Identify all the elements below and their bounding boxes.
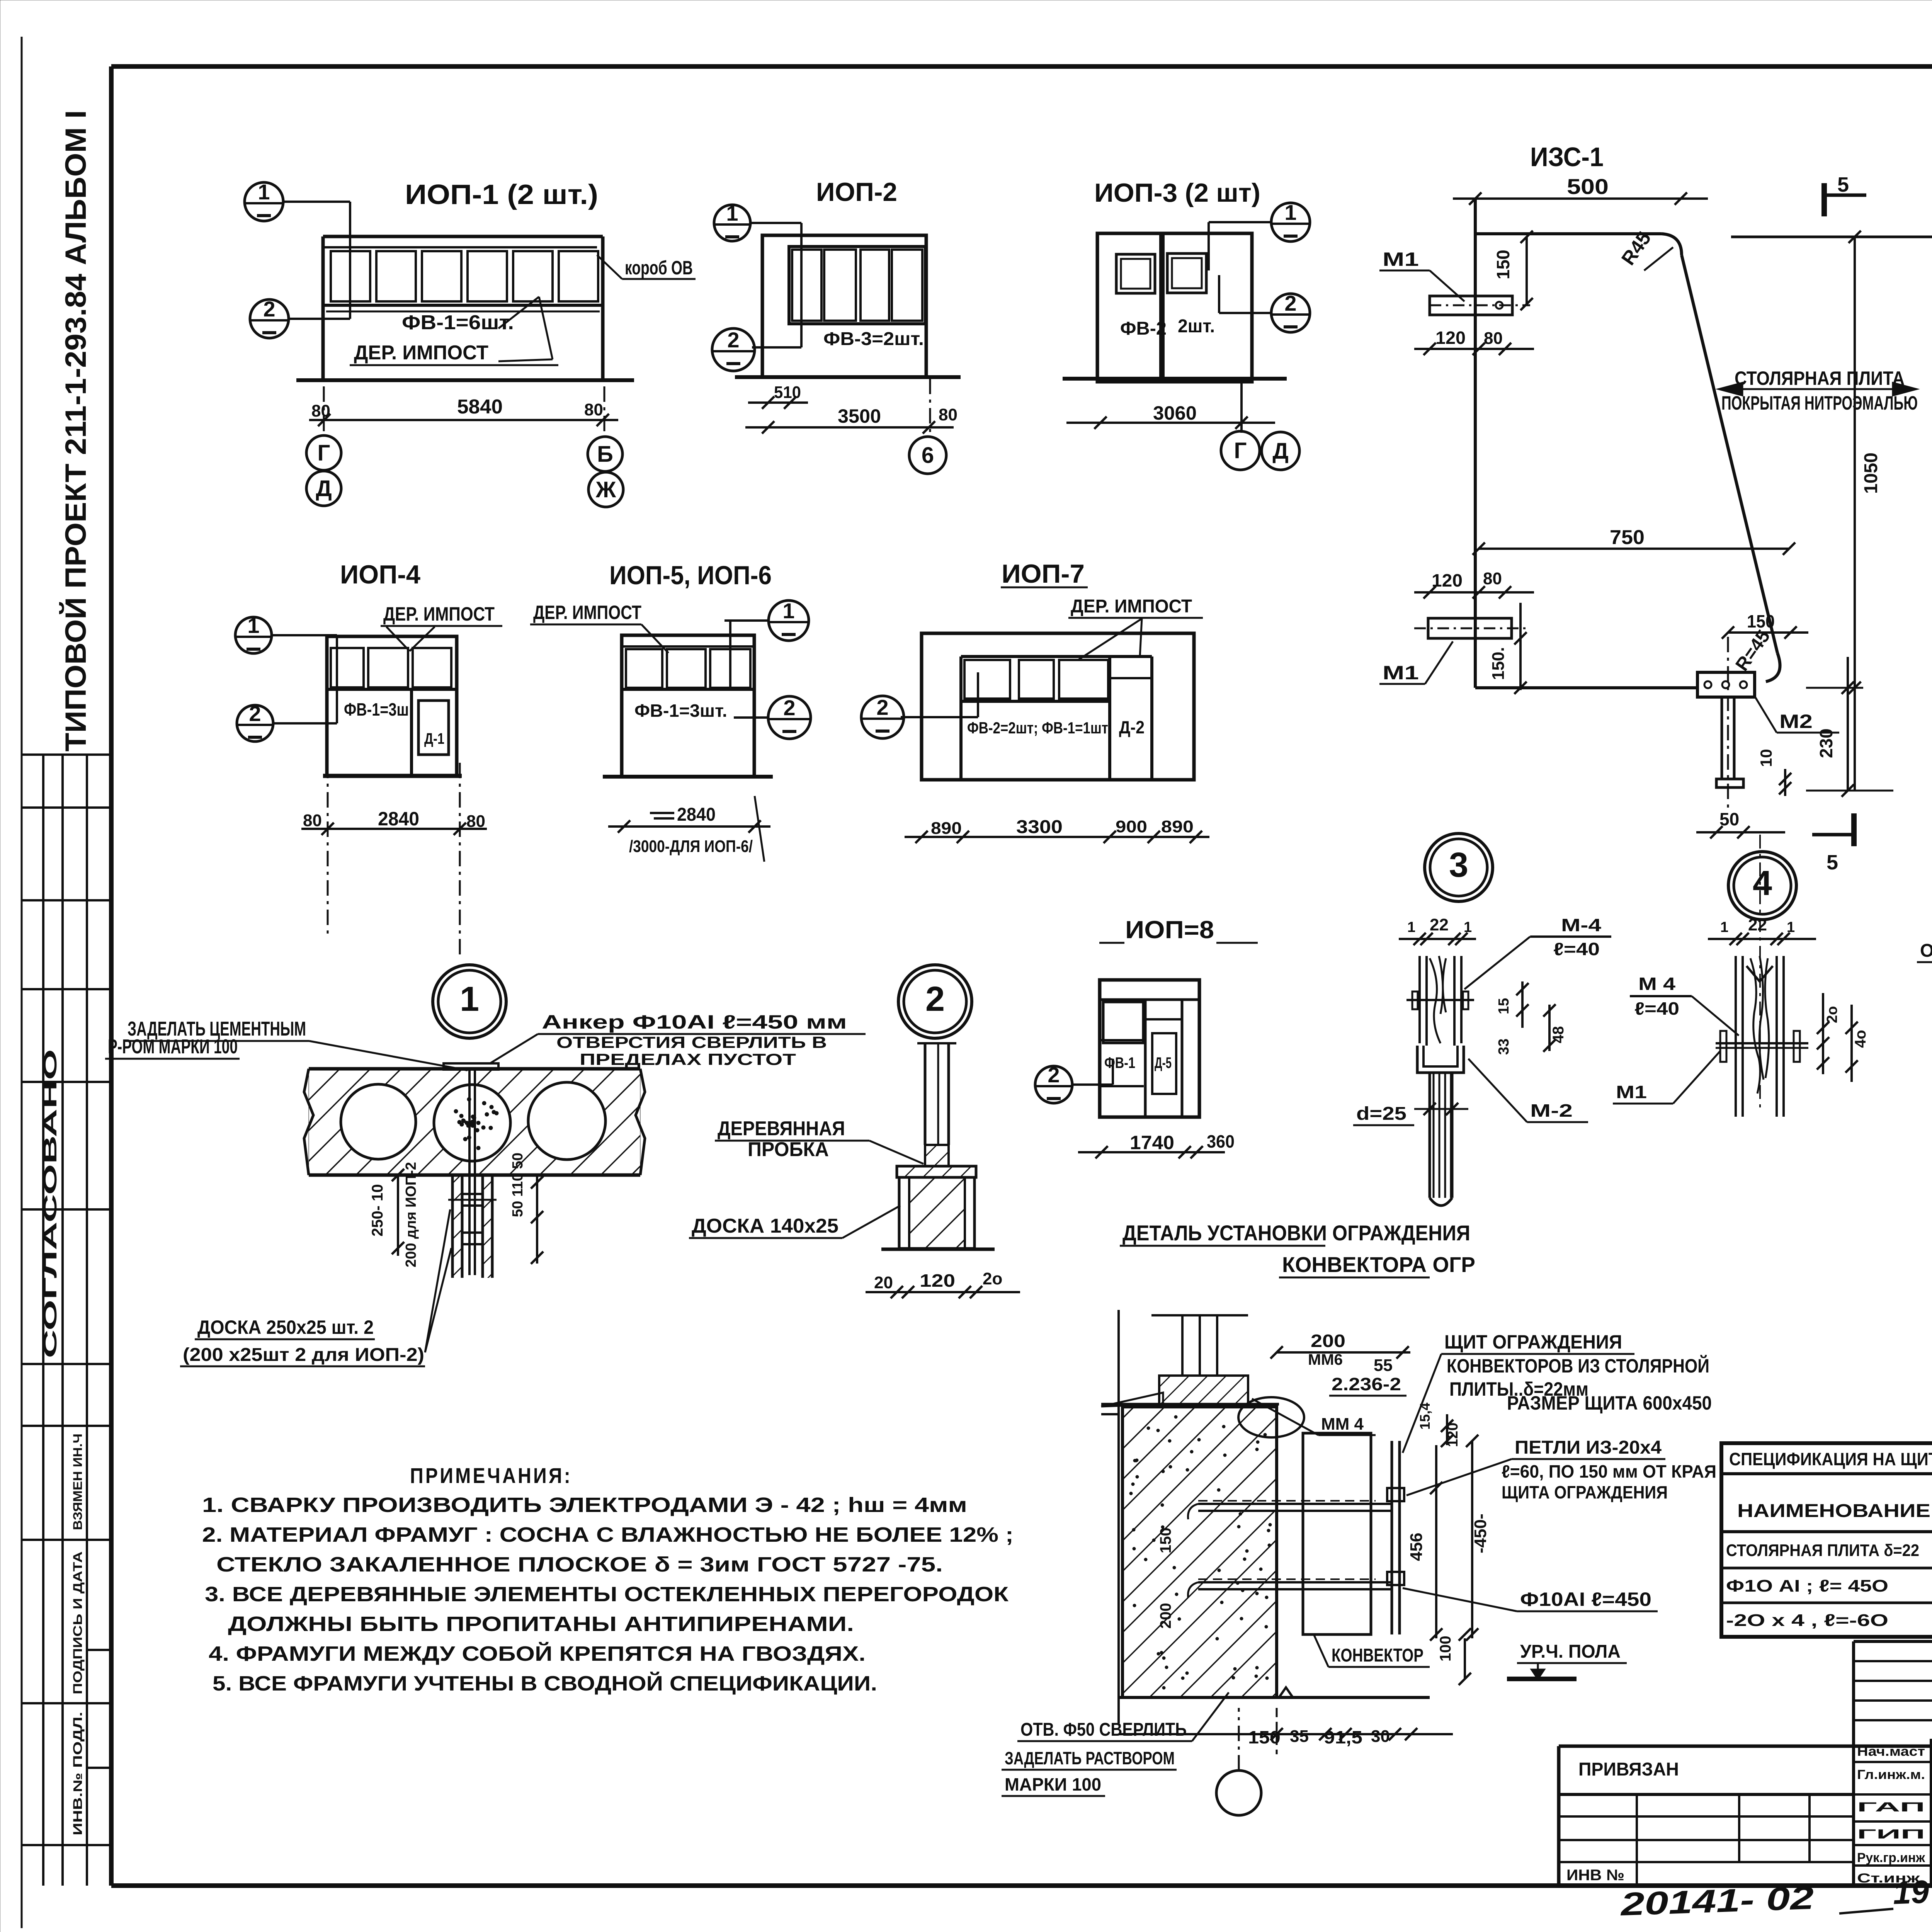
svg-text:Г: Г: [1234, 438, 1247, 463]
svg-text:ЩИТ ОГРАЖДЕНИЯ: ЩИТ ОГРАЖДЕНИЯ: [1444, 1331, 1622, 1353]
svg-text:10: 10: [1757, 749, 1775, 767]
dim 150 right of lower M1: [1519, 603, 1522, 690]
svg-text:ℓ=40: ℓ=40: [1634, 998, 1679, 1019]
dowel d=25: [1429, 1073, 1431, 1198]
dim 1740 360 ИОП-8: [1078, 1151, 1225, 1153]
svg-text:50 110 50: 50 110 50: [510, 1153, 526, 1217]
callout circle 2 ИОП-2: [712, 328, 755, 371]
dim 10 M2 base: [1784, 769, 1786, 796]
svg-text:1: 1: [1720, 919, 1728, 935]
dim 80 5840 80 ИОП-1: [309, 419, 618, 421]
svg-text:2. МАТЕРИАЛ ФРАМУГ : СОСНА: 2. МАТЕРИАЛ ФРАМУГ : СОСНА С ВЛАЖНОСТЬЮ …: [202, 1523, 1014, 1546]
svg-text:Д-1: Д-1: [424, 730, 444, 747]
ИОП-3 windows ФВ-2: [1116, 254, 1155, 293]
svg-text:Рук.гр.инж: Рук.гр.инж: [1857, 1850, 1925, 1865]
svg-text:80: 80: [939, 405, 957, 424]
svg-text:80: 80: [1483, 569, 1502, 588]
bottom dim 150 35 91,5 30: [1119, 1733, 1453, 1735]
bracket M2 plate: [1697, 672, 1755, 697]
svg-text:МАРКИ 100: МАРКИ 100: [1005, 1774, 1101, 1794]
svg-text:48: 48: [1550, 1026, 1567, 1044]
svg-text:КОНВЕКТОРОВ ИЗ СТОЛЯРНОЙ: КОНВЕКТОРОВ ИЗ СТОЛЯРНОЙ: [1447, 1355, 1709, 1377]
svg-text:1: 1: [1787, 919, 1795, 935]
svg-text:3. ВСЕ ДЕРЕВЯННЫЕ ЭЛЕМЕНТЫ: 3. ВСЕ ДЕРЕВЯННЫЕ ЭЛЕМЕНТЫ ОСТЕКЛЕННЫХ П…: [205, 1583, 1009, 1606]
dim 3500 80 ИОП-2: [745, 426, 954, 429]
svg-text:ДОСКА 250х25 шт. 2: ДОСКА 250х25 шт. 2: [197, 1316, 374, 1338]
axis dashdot lines: [323, 386, 325, 435]
svg-text:ЩИТА ОГРАЖДЕНИЯ: ЩИТА ОГРАЖДЕНИЯ: [1502, 1482, 1668, 1502]
svg-text:150: 150: [1493, 250, 1513, 279]
top line to 5-5: [1731, 236, 1932, 238]
section 5 flag bottom: [1851, 813, 1857, 846]
svg-text:1: 1: [258, 180, 270, 204]
svg-text:М1: М1: [1616, 1082, 1647, 1102]
svg-text:20: 20: [874, 1273, 893, 1292]
svg-text:Ф10АІ ℓ=450: Ф10АІ ℓ=450: [1520, 1588, 1651, 1610]
svg-text:ПРЕДЕЛАХ ПУСТОТ: ПРЕДЕЛАХ ПУСТОТ: [580, 1050, 796, 1068]
svg-text:3: 3: [1449, 846, 1468, 884]
svg-text:2: 2: [263, 297, 275, 321]
bracket M1 lower: [1428, 618, 1512, 638]
svg-text:80: 80: [1484, 329, 1503, 348]
left margin stamp column: [42, 755, 44, 1886]
svg-text:30: 30: [1371, 1727, 1390, 1746]
axis circle Г: [306, 435, 341, 470]
svg-text:/3000-ДЛЯ ИОП-6/: /3000-ДЛЯ ИОП-6/: [629, 837, 753, 856]
screen diagonal edge: [1682, 255, 1777, 653]
svg-text:СПЕЦИФИКАЦИЯ НА ЩИТЫ ОГРАЖДЕНИ: СПЕЦИФИКАЦИЯ НА ЩИТЫ ОГРАЖДЕНИЯ КОНВЕКТО…: [1729, 1449, 1932, 1469]
svg-text:ОТВ. Ф50 СВЕРЛИТЬ: ОТВ. Ф50 СВЕРЛИТЬ: [1020, 1719, 1187, 1740]
svg-text:-2О х 4 , ℓ=-6О: -2О х 4 , ℓ=-6О: [1726, 1611, 1888, 1630]
svg-text:ММ 4: ММ 4: [1321, 1415, 1364, 1434]
detail 3 dim 1 22 1: [1399, 938, 1476, 940]
dim 750: [1479, 548, 1789, 550]
svg-text:120: 120: [1435, 328, 1466, 348]
svg-text:5: 5: [1827, 851, 1838, 874]
svg-text:Б: Б: [597, 442, 613, 467]
svg-text:890: 890: [931, 819, 962, 838]
svg-text:ДЕР. ИМПОСТ: ДЕР. ИМПОСТ: [383, 603, 495, 625]
svg-text:М1: М1: [1383, 662, 1419, 684]
svg-text:4о: 4о: [1852, 1030, 1869, 1048]
svg-text:ОТВЕРСТИЯ СВЕРЛИТЬ В: ОТВЕРСТИЯ СВЕРЛИТЬ В: [556, 1033, 827, 1051]
svg-text:ℓ=60, ПО 150 мм ОТ КРАЯ: ℓ=60, ПО 150 мм ОТ КРАЯ: [1502, 1461, 1716, 1481]
svg-text:1050: 1050: [1861, 452, 1881, 494]
svg-text:Д: Д: [1272, 439, 1288, 464]
svg-text:2: 2: [249, 701, 261, 726]
M2 column: [1721, 697, 1723, 779]
dim 230: [1847, 657, 1849, 791]
svg-text:2: 2: [727, 328, 739, 352]
svg-text:120: 120: [1432, 570, 1463, 590]
panel ИОП-3 outline: [1097, 233, 1252, 382]
svg-text:3060: 3060: [1153, 402, 1197, 424]
ground line ИОП-2: [735, 375, 961, 379]
guard panel: [1391, 1441, 1393, 1634]
svg-text:короб ОВ: короб ОВ: [625, 257, 693, 279]
svg-text:СТЕКЛО ЗАКАЛЕННОЕ ПЛОСКОЕ: СТЕКЛО ЗАКАЛЕННОЕ ПЛОСКОЕ δ = 3им ГОСТ 5…: [216, 1553, 943, 1576]
screen left edge: [1474, 199, 1477, 688]
detail 4 circle: [1728, 852, 1796, 920]
svg-text:22: 22: [1430, 915, 1449, 934]
ИОП-2 window band ФВ-3 x4: [789, 247, 925, 324]
screen bottom edge: [1475, 686, 1697, 689]
svg-text:230: 230: [1816, 728, 1836, 758]
ground ИОП-5: [603, 775, 773, 779]
svg-text:200: 200: [1157, 1603, 1174, 1629]
svg-text:6: 6: [922, 443, 934, 468]
svg-text:ДЕР. ИМПОСТ: ДЕР. ИМПОСТ: [1071, 596, 1192, 617]
svg-text:ℓ=40: ℓ=40: [1553, 939, 1600, 959]
panel ИОП-2 outline: [762, 235, 926, 377]
svg-text:Г: Г: [318, 440, 330, 466]
ИОП-8 window: [1103, 1002, 1143, 1043]
svg-text:М1: М1: [1383, 248, 1419, 270]
axis circle Г: [1221, 431, 1260, 470]
svg-text:3500: 3500: [838, 405, 881, 427]
stud above plug: [924, 1043, 927, 1145]
svg-text:500: 500: [1567, 174, 1609, 199]
svg-text:2840: 2840: [378, 808, 419, 830]
привязан grid: [1559, 1815, 1854, 1818]
wood grain: [1430, 956, 1446, 1043]
axis circle 6: [909, 437, 946, 474]
callout 1 ИОП-5: [769, 600, 809, 641]
callout circle 2 ИОП-1: [250, 299, 289, 338]
panel ИОП-1 outline: [323, 235, 603, 238]
svg-text:1: 1: [1407, 919, 1415, 935]
wall hatched: [1122, 1407, 1277, 1697]
vertical dims left of boards: [397, 1175, 399, 1256]
svg-text:ФВ-2: ФВ-2: [1120, 318, 1167, 339]
slab outline: [309, 1067, 640, 1071]
svg-text:80: 80: [584, 400, 603, 419]
vertical dims right: [536, 1175, 538, 1264]
svg-text:ИОП=8: ИОП=8: [1125, 916, 1214, 944]
signature row Рук.гр.инж: [1854, 1844, 1932, 1846]
svg-text:М-2: М-2: [1530, 1100, 1573, 1121]
svg-text:ММ6: ММ6: [1308, 1351, 1343, 1368]
svg-text:80: 80: [311, 401, 330, 420]
callout 2 ИОП-4: [237, 705, 273, 742]
svg-text:91,5: 91,5: [1324, 1727, 1362, 1747]
axis circle Д: [306, 471, 341, 506]
svg-text:ИЗС-1: ИЗС-1: [1530, 142, 1604, 172]
svg-text:ЗАДЕЛАТЬ РАСТВОРОМ: ЗАДЕЛАТЬ РАСТВОРОМ: [1005, 1748, 1175, 1768]
svg-text:Д-2: Д-2: [1119, 717, 1145, 737]
svg-text:М 4: М 4: [1638, 974, 1676, 994]
svg-text:200 для ИОП-2: 200 для ИОП-2: [403, 1162, 419, 1267]
name rows: [1852, 1739, 1855, 1886]
svg-text:120: 120: [920, 1270, 955, 1291]
ИОП-5 panes: [626, 649, 662, 688]
svg-text:1: 1: [726, 201, 738, 225]
slab cores: [341, 1084, 416, 1159]
svg-text:150: 150: [1248, 1727, 1281, 1747]
ground line under ИОП-1: [296, 378, 634, 382]
svg-text:750: 750: [1610, 526, 1645, 549]
svg-text:ИНВ.№ ПОДЛ.: ИНВ.№ ПОДЛ.: [71, 1712, 85, 1835]
plug cross hatch: [909, 1177, 965, 1248]
svg-text:890: 890: [1161, 817, 1194, 836]
M-2 channel wrap: [1417, 1046, 1464, 1073]
svg-text:15,4: 15,4: [1417, 1403, 1433, 1430]
table спецификация на щиты ограждения конвекторов: [1721, 1443, 1932, 1637]
callout circle 1 ИОП-3: [1271, 203, 1310, 241]
vertical dims 120 456 450 100: [1446, 1414, 1448, 1445]
svg-text:2.236-2: 2.236-2: [1332, 1374, 1401, 1394]
svg-text:80: 80: [303, 811, 322, 830]
svg-text:1: 1: [460, 980, 479, 1019]
node circle 2: [898, 965, 972, 1038]
dim 510 ИОП-2: [748, 401, 808, 404]
svg-text:ФВ-1: ФВ-1: [1104, 1054, 1135, 1071]
sheet outer edge line left: [21, 37, 23, 1928]
привязан box: [1559, 1745, 1932, 1748]
svg-text:2: 2: [1048, 1063, 1060, 1087]
plug body: [899, 1177, 975, 1248]
signature row Ст.инж.: [1854, 1864, 1932, 1867]
center mullion: [1159, 233, 1165, 379]
svg-text:510: 510: [774, 383, 801, 402]
callout 2 ИОП-8: [1035, 1066, 1072, 1103]
svg-text:1: 1: [1464, 919, 1472, 935]
dim 120 80 under M1: [1414, 348, 1534, 350]
ground ИОП-4: [323, 774, 462, 778]
callout 2 ИОП-7: [861, 696, 904, 738]
panel ИОП-4 outline: [327, 636, 457, 776]
svg-text:250- 10: 250- 10: [369, 1184, 386, 1236]
signature row ГАП: [1854, 1793, 1932, 1796]
convector box: [1303, 1433, 1371, 1634]
svg-text:(200 х25шт 2 для ИОП-2): (200 х25шт 2 для ИОП-2): [183, 1345, 424, 1365]
svg-text:СОГЛАСОВАНО: СОГЛАСОВАНО: [40, 1049, 61, 1358]
ground under plug: [881, 1248, 995, 1251]
ИОП-4 panes: [331, 648, 364, 687]
svg-text:5. ВСЕ ФРАМУГИ УЧТЕНЫ В СВО: 5. ВСЕ ФРАМУГИ УЧТЕНЫ В СВОДНОЙ СПЕЦИФИК…: [213, 1672, 877, 1695]
svg-text:ФВ-1=3ш: ФВ-1=3ш: [344, 699, 409, 719]
sill line: [1101, 1403, 1279, 1406]
dims 15 48 33: [1521, 981, 1524, 1028]
svg-text:ДОЛЖНЫ БЫТЬ ПРОПИТАНЫ АНТИП: ДОЛЖНЫ БЫТЬ ПРОПИТАНЫ АНТИПИРЕНАМИ.: [228, 1612, 854, 1636]
svg-text:ГАП: ГАП: [1857, 1800, 1925, 1815]
axis circle Б: [588, 437, 622, 471]
M2 base plate: [1716, 779, 1743, 787]
svg-text:5: 5: [1837, 173, 1849, 196]
svg-text:33: 33: [1496, 1039, 1512, 1055]
svg-text:ИНВ №: ИНВ №: [1566, 1867, 1624, 1884]
svg-text:ИОП-4: ИОП-4: [340, 560, 420, 589]
bottom circle callout: [1216, 1770, 1261, 1815]
leader triangle: [498, 297, 539, 328]
svg-text:1740: 1740: [1130, 1132, 1174, 1153]
revision grid: [1854, 1640, 1932, 1643]
ИОП-8 ФВ-1 cell: [1144, 1000, 1147, 1117]
svg-text:5840: 5840: [457, 396, 503, 418]
dim 890 3300 900 890 ИОП-7: [905, 836, 1209, 838]
svg-text:55: 55: [1374, 1356, 1393, 1375]
svg-text:Ж: Ж: [595, 477, 616, 502]
svg-text:СТОЛЯРНАЯ ПЛИТА: СТОЛЯРНАЯ ПЛИТА: [1735, 367, 1905, 389]
ИОП-7 window band: [961, 655, 1152, 658]
R45 top corner: [1662, 234, 1682, 255]
svg-text:ИОП-7: ИОП-7: [1002, 559, 1085, 588]
svg-text:Анкер Ф10АІ ℓ=450 мм: Анкер Ф10АІ ℓ=450 мм: [542, 1011, 847, 1033]
ИОП-8 door Д-5: [1181, 1000, 1184, 1117]
svg-text:2о: 2о: [983, 1269, 1002, 1288]
svg-text:Ф1О АІ ; ℓ= 45О: Ф1О АІ ; ℓ= 45О: [1726, 1577, 1888, 1595]
svg-text:2шт.: 2шт.: [1178, 316, 1215, 337]
svg-text:ВЗЯМЕН ИН.Ч: ВЗЯМЕН ИН.Ч: [71, 1434, 85, 1530]
callout 1 ИОП-4: [235, 617, 272, 653]
dim 200 top: [1277, 1351, 1410, 1354]
svg-text:ПРОБКА: ПРОБКА: [748, 1138, 829, 1161]
svg-text:РАЗМЕР ЩИТА 600х450: РАЗМЕР ЩИТА 600х450: [1507, 1392, 1712, 1414]
svg-text:ТИПОВОЙ ПРОЕКТ 211-1-293.84: ТИПОВОЙ ПРОЕКТ 211-1-293.84 АЛЬБОМ I: [59, 110, 92, 752]
dim 1050 vertical: [1854, 237, 1856, 791]
svg-text:ДЕР. ИМПОСТ: ДЕР. ИМПОСТ: [533, 602, 641, 623]
svg-text:d=25: d=25: [1356, 1104, 1406, 1124]
svg-text:М-4: М-4: [1561, 915, 1602, 935]
svg-text:КОНВЕКТОРА ОГР: КОНВЕКТОРА ОГР: [1282, 1252, 1475, 1277]
svg-text:200: 200: [1311, 1331, 1345, 1351]
svg-text:3300: 3300: [1016, 817, 1063, 837]
floor line: [1119, 1696, 1430, 1699]
svg-text:ДОСКА 140х25: ДОСКА 140х25: [692, 1215, 838, 1237]
svg-text:35: 35: [1290, 1727, 1309, 1746]
svg-text:ПРИМЕЧАНИЯ:: ПРИМЕЧАНИЯ:: [410, 1463, 572, 1488]
svg-text:4: 4: [1753, 864, 1772, 903]
svg-text:20141- 02: 20141- 02: [1619, 1879, 1815, 1922]
node circle 1: [433, 965, 506, 1038]
svg-text:150: 150: [1747, 611, 1775, 631]
svg-text:ФВ-1=3шт.: ФВ-1=3шт.: [634, 701, 727, 721]
svg-text:ИОП-5, ИОП-6: ИОП-5, ИОП-6: [609, 561, 772, 590]
svg-text:УР.Ч. ПОЛА: УР.Ч. ПОЛА: [1520, 1641, 1621, 1662]
bracket M1 top: [1430, 296, 1512, 315]
svg-text:360: 360: [1207, 1131, 1235, 1151]
svg-text:2: 2: [783, 696, 795, 720]
dim 150 bracket M2: [1728, 631, 1808, 634]
svg-text:Д-5: Д-5: [1155, 1054, 1172, 1071]
svg-text:1. СВАРКУ ПРОИЗВОДИТЬ ЭЛЕКТР: 1. СВАРКУ ПРОИЗВОДИТЬ ЭЛЕКТРОДАМИ Э - 42…: [202, 1493, 967, 1517]
callout circle 2 ИОП-3: [1271, 294, 1310, 332]
anchor rod: [468, 1070, 471, 1275]
wall inner stipple: [1129, 1415, 1272, 1689]
svg-text:-450-: -450-: [1471, 1514, 1490, 1553]
dim 150 top left: [1526, 237, 1528, 304]
svg-text:ПОДПИСЬ И ДАТА: ПОДПИСЬ И ДАТА: [71, 1551, 85, 1694]
leader wire callout 1/2 ИОП-1: [283, 201, 350, 203]
panel ИОП-8 outline: [1100, 980, 1199, 1117]
svg-text:ФВ-3=2шт.: ФВ-3=2шт.: [823, 329, 924, 349]
ИОП-7 inner verticals: [959, 701, 963, 780]
svg-text:ДЕР. ИМПОСТ: ДЕР. ИМПОСТ: [354, 342, 488, 364]
dim 80 2840 80: [301, 828, 487, 830]
svg-text:1: 1: [1284, 200, 1296, 224]
detail 3 bolt: [1406, 999, 1474, 1001]
svg-text:ИОП-2: ИОП-2: [816, 177, 897, 207]
axis circle Д: [1262, 432, 1299, 470]
axis circle Ж: [588, 472, 623, 507]
svg-text:19: 19: [1892, 1873, 1930, 1911]
svg-text:456: 456: [1407, 1533, 1426, 1561]
svg-text:80: 80: [466, 812, 485, 831]
bolt detail: [462, 1194, 483, 1206]
detail 4 dim 1 22 1: [1708, 938, 1816, 940]
signature row ГИП: [1854, 1820, 1932, 1823]
svg-text:Р-РОМ МАРКИ 100: Р-РОМ МАРКИ 100: [108, 1036, 238, 1058]
dim 500: [1453, 197, 1708, 200]
svg-text:ГИП: ГИП: [1857, 1827, 1925, 1842]
svg-text:ФВ-2=2шт; ФВ-1=1шт: ФВ-2=2шт; ФВ-1=1шт: [967, 719, 1108, 737]
plug cap: [897, 1166, 976, 1177]
svg-text:2840: 2840: [677, 804, 716, 825]
svg-text:ДЕРЕВЯННАЯ: ДЕРЕВЯННАЯ: [718, 1117, 845, 1140]
svg-text:ИОП-1 (2 шт.): ИОП-1 (2 шт.): [405, 179, 598, 210]
R45 bottom corner: [1766, 653, 1780, 682]
concrete dots in middle core: [454, 1097, 498, 1150]
ground line ИОП-3: [1063, 377, 1287, 381]
ellipse callout on sill: [1238, 1397, 1304, 1437]
svg-text:ДЕТАЛЬ УСТАНОВКИ ОГРАЖДЕНИЯ: ДЕТАЛЬ УСТАНОВКИ ОГРАЖДЕНИЯ: [1122, 1221, 1470, 1245]
svg-text:100: 100: [1437, 1636, 1454, 1662]
svg-text:1: 1: [782, 599, 794, 623]
dim 3060 ИОП-3: [1066, 422, 1275, 424]
svg-text:1: 1: [247, 613, 259, 638]
dim 2840 /3000 для ИОП-6: [608, 825, 770, 828]
svg-text:М2: М2: [1779, 711, 1813, 732]
svg-text:150: 150: [1157, 1527, 1174, 1553]
svg-text:ИОП-3 (2 шт): ИОП-3 (2 шт): [1094, 178, 1260, 207]
callout 2 ИОП-5: [768, 696, 811, 739]
panel ИОП-7 outline: [922, 633, 1194, 780]
slab hatch: [309, 1069, 640, 1175]
svg-text:2о: 2о: [1824, 1006, 1840, 1023]
signature row Гл.инж.м.: [1854, 1761, 1932, 1763]
detail 3 post with side plates: [1418, 956, 1421, 1043]
svg-text:ФВ-1=6шт.: ФВ-1=6шт.: [402, 311, 514, 334]
dims 20 40 20: [1822, 993, 1824, 1074]
svg-text:ПОКРЫТАЯ НИТРОЭМАЛЬЮ: ПОКРЫТАЯ НИТРОЭМАЛЬЮ: [1721, 392, 1918, 414]
dims 20 120 20: [866, 1291, 1020, 1293]
svg-text:900: 900: [1116, 817, 1147, 836]
vertical ref line: [1117, 1310, 1120, 1723]
dim 50 M2: [1696, 831, 1785, 833]
section 5 flag top: [1821, 183, 1827, 216]
ИОП-1 window panes ФВ-1 x6: [331, 251, 370, 301]
svg-text:ПРИВЯЗАН: ПРИВЯЗАН: [1578, 1759, 1679, 1780]
handwritten 20141-02 19: [1619, 1873, 1930, 1922]
svg-text:НАИМЕНОВАНИЕ: НАИМЕНОВАНИЕ: [1737, 1501, 1930, 1521]
svg-text:150.: 150.: [1489, 647, 1508, 680]
svg-text:СТОЛЯРНАЯ ПЛИТА δ=22: СТОЛЯРНАЯ ПЛИТА δ=22: [1726, 1541, 1919, 1560]
partition boards below slab: [451, 1175, 454, 1278]
detail 4 bolt: [1716, 1042, 1808, 1044]
panel ИОП-5 outline: [622, 635, 754, 777]
svg-text:Гл.инж.м.: Гл.инж.м.: [1857, 1767, 1925, 1782]
main frame border: [111, 64, 1932, 69]
svg-text:50: 50: [1719, 809, 1739, 829]
callout circle 1 ИОП-1: [245, 182, 283, 221]
screen top edge: [1475, 232, 1662, 235]
svg-text:ПЕТЛИ ИЗ-20х4: ПЕТЛИ ИЗ-20х4: [1515, 1437, 1662, 1458]
detail 3 circle: [1425, 833, 1493, 901]
window sill assembly above wall: [1181, 1315, 1184, 1376]
detail 4 post: [1735, 956, 1737, 1117]
svg-text:КОНВЕКТОР: КОНВЕКТОР: [1332, 1645, 1423, 1666]
svg-text:Д: Д: [316, 476, 332, 501]
